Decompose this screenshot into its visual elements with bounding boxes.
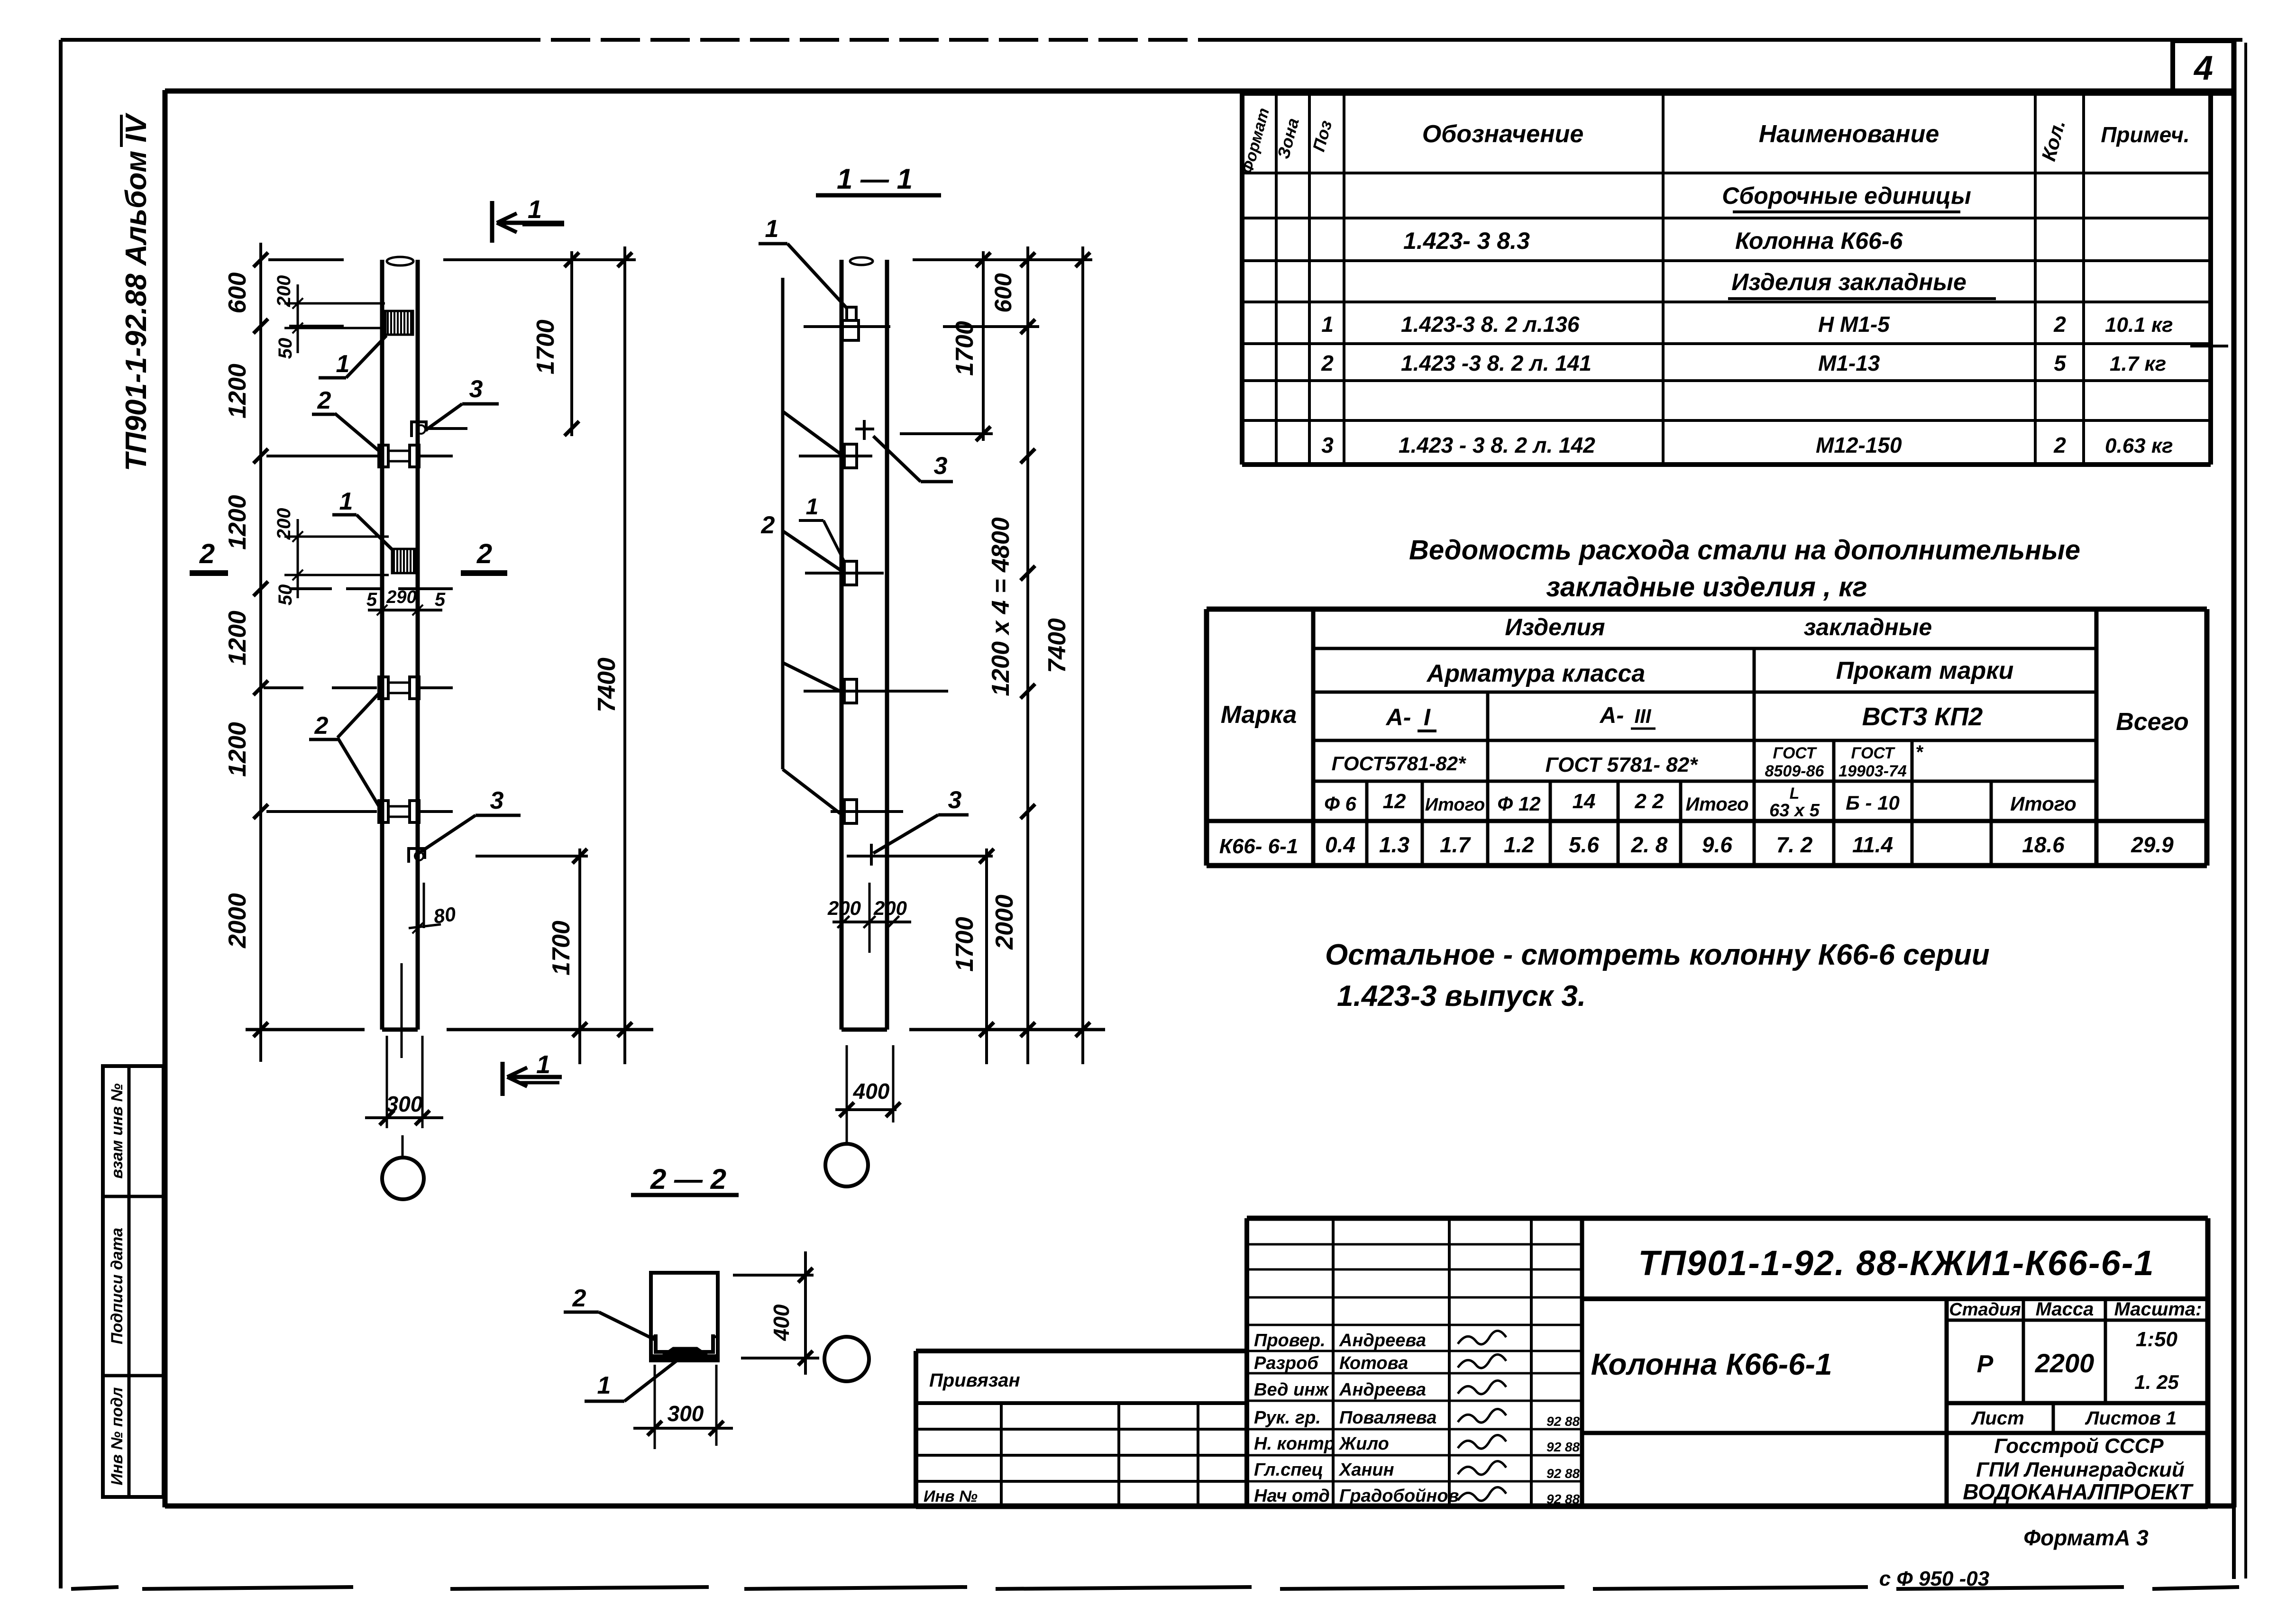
svg-text:Масшта:: Масшта: xyxy=(2114,1299,2202,1320)
svg-text:5: 5 xyxy=(366,589,377,610)
svg-text:Наименование: Наименование xyxy=(1759,120,1939,148)
svg-text:14: 14 xyxy=(1573,790,1596,813)
svg-text:1: 1 xyxy=(339,488,353,515)
svg-text:2: 2 xyxy=(572,1285,586,1312)
svg-text:1: 1 xyxy=(597,1372,611,1399)
svg-text:ГОСТ: ГОСТ xyxy=(1773,744,1818,762)
svg-text:Обозначение: Обозначение xyxy=(1422,120,1584,148)
svg-text:1 — 1: 1 — 1 xyxy=(837,163,913,195)
svg-text:Гл.спец: Гл.спец xyxy=(1254,1460,1323,1480)
svg-text:Подписи дата: Подписи дата xyxy=(108,1228,126,1344)
svg-text:3: 3 xyxy=(469,375,483,403)
svg-text:7400: 7400 xyxy=(593,657,621,712)
svg-text:Лист: Лист xyxy=(1971,1408,2024,1429)
svg-text:3: 3 xyxy=(1321,433,1334,457)
svg-text:92 88: 92 88 xyxy=(1546,1466,1580,1481)
svg-text:2: 2 xyxy=(1321,351,1334,375)
svg-text:ВСТ3 КП2: ВСТ3 КП2 xyxy=(1862,703,1983,731)
svg-text:1700: 1700 xyxy=(951,321,979,376)
svg-text:Масса: Масса xyxy=(2036,1299,2094,1320)
svg-text:закладные изделия , кг: закладные изделия , кг xyxy=(1546,572,1867,602)
svg-text:1.423- 3 8.3: 1.423- 3 8.3 xyxy=(1403,228,1530,254)
svg-text:Рук. гр.: Рук. гр. xyxy=(1254,1408,1321,1428)
svg-text:I: I xyxy=(1424,704,1431,730)
svg-text:12: 12 xyxy=(1383,790,1406,813)
svg-text:Колонна К66-6: Колонна К66-6 xyxy=(1735,228,1903,254)
svg-text:Н. контр: Н. контр xyxy=(1254,1434,1335,1454)
svg-text:ВОДОКАНАЛПРОЕКТ: ВОДОКАНАЛПРОЕКТ xyxy=(1963,1479,2194,1504)
svg-text:1. 25: 1. 25 xyxy=(2134,1371,2179,1393)
svg-text:300: 300 xyxy=(386,1092,423,1116)
svg-text:50: 50 xyxy=(275,584,296,606)
svg-text:ТП901-1-92.88 Альбом IV: ТП901-1-92.88 Альбом IV xyxy=(120,112,153,471)
svg-text:А-: А- xyxy=(1600,703,1624,728)
svg-text:Итого: Итого xyxy=(1685,794,1748,815)
svg-text:Изделия закладные: Изделия закладные xyxy=(1731,269,1967,295)
svg-text:92 88: 92 88 xyxy=(1546,1440,1580,1454)
svg-text:2: 2 xyxy=(199,538,215,569)
svg-text:2: 2 xyxy=(476,538,492,569)
svg-text:3: 3 xyxy=(490,787,504,814)
svg-text:Листов 1: Листов 1 xyxy=(2085,1408,2177,1429)
svg-text:III: III xyxy=(1634,705,1651,727)
svg-text:10.1 кг: 10.1 кг xyxy=(2105,313,2173,337)
svg-text:взам инв №: взам инв № xyxy=(108,1083,126,1178)
svg-text:Всего: Всего xyxy=(2116,708,2189,736)
svg-text:закладные: закладные xyxy=(1804,614,1932,640)
svg-text:92 88: 92 88 xyxy=(1546,1414,1580,1429)
svg-text:Примеч.: Примеч. xyxy=(2101,122,2189,147)
svg-text:19903-74: 19903-74 xyxy=(1839,762,1907,780)
svg-text:50: 50 xyxy=(275,338,296,359)
svg-text:Инв №: Инв № xyxy=(924,1487,978,1505)
svg-text:ФорматА 3: ФорматА 3 xyxy=(2023,1525,2149,1550)
svg-text:Стадия: Стадия xyxy=(1949,1300,2021,1320)
svg-text:11.4: 11.4 xyxy=(1852,832,1893,857)
svg-text:М12-150: М12-150 xyxy=(1816,433,1902,457)
svg-text:2. 8: 2. 8 xyxy=(1631,832,1668,857)
svg-text:1200: 1200 xyxy=(224,495,251,550)
svg-text:1.423 -3 8. 2 л. 141: 1.423 -3 8. 2 л. 141 xyxy=(1401,351,1592,375)
svg-text:ГОСТ: ГОСТ xyxy=(1851,744,1896,762)
svg-text:0.63 кг: 0.63 кг xyxy=(2105,434,2173,457)
svg-text:200: 200 xyxy=(827,897,861,919)
svg-text:2: 2 xyxy=(2053,433,2066,457)
svg-text:1700: 1700 xyxy=(532,319,559,374)
svg-text:1: 1 xyxy=(765,215,779,243)
svg-text:600: 600 xyxy=(224,273,251,314)
svg-text:Жило: Жило xyxy=(1338,1434,1389,1454)
svg-text:Остальное - смотреть колонну: Остальное - смотреть колонну К66-6 серии xyxy=(1325,939,1990,971)
svg-text:1700: 1700 xyxy=(951,917,979,972)
svg-text:ТП901-1-92. 88-КЖИ1-К66-6-1: ТП901-1-92. 88-КЖИ1-К66-6-1 xyxy=(1638,1243,2154,1283)
svg-text:2: 2 xyxy=(317,387,331,414)
svg-text:с Ф 950 -03: с Ф 950 -03 xyxy=(1879,1567,1990,1590)
svg-text:Ханин: Ханин xyxy=(1338,1460,1394,1480)
svg-text:1.423-3 выпуск 3.: 1.423-3 выпуск 3. xyxy=(1337,980,1586,1013)
svg-text:1: 1 xyxy=(336,350,350,378)
svg-text:1.3: 1.3 xyxy=(1379,832,1409,857)
svg-text:К66- 6-1: К66- 6-1 xyxy=(1219,835,1298,858)
svg-text:5: 5 xyxy=(2054,351,2067,375)
svg-text:Котова: Котова xyxy=(1339,1353,1408,1373)
svg-text:1200: 1200 xyxy=(224,722,251,777)
svg-text:Разроб: Разроб xyxy=(1254,1353,1319,1373)
svg-text:18.6: 18.6 xyxy=(2022,832,2065,857)
svg-text:1.7: 1.7 xyxy=(1440,832,1471,857)
svg-text:ГОСТ5781-82*: ГОСТ5781-82* xyxy=(1332,752,1466,775)
svg-text:63 х 5: 63 х 5 xyxy=(1769,801,1820,821)
svg-text:ГОСТ 5781- 82*: ГОСТ 5781- 82* xyxy=(1546,753,1699,776)
svg-text:0.4: 0.4 xyxy=(1325,832,1355,857)
svg-text:80: 80 xyxy=(432,903,457,928)
svg-text:290: 290 xyxy=(386,587,416,607)
svg-text:1700: 1700 xyxy=(548,921,575,976)
svg-text:Андреева: Андреева xyxy=(1339,1331,1426,1350)
svg-text:5: 5 xyxy=(435,589,446,610)
svg-text:Нач отд: Нач отд xyxy=(1254,1486,1330,1506)
svg-text:1200 х 4 = 4800: 1200 х 4 = 4800 xyxy=(987,517,1015,696)
svg-text:2: 2 xyxy=(314,712,329,739)
svg-text:Сборочные единицы: Сборочные единицы xyxy=(1722,182,1971,209)
svg-text:Поваляева: Поваляева xyxy=(1339,1408,1436,1428)
svg-text:1.423 - 3 8. 2 л. 142: 1.423 - 3 8. 2 л. 142 xyxy=(1399,433,1595,457)
svg-text:1.423-3 8. 2 л.136: 1.423-3 8. 2 л.136 xyxy=(1401,312,1580,337)
svg-text:Колонна К66-6-1: Колонна К66-6-1 xyxy=(1591,1347,1832,1381)
svg-text:29.9: 29.9 xyxy=(2131,832,2174,857)
svg-text:2200: 2200 xyxy=(2035,1348,2095,1378)
svg-text:1.7 кг: 1.7 кг xyxy=(2110,352,2166,375)
svg-text:400: 400 xyxy=(853,1079,890,1104)
svg-text:Итого: Итого xyxy=(1425,795,1485,815)
svg-text:Привязан: Привязан xyxy=(929,1370,1020,1391)
svg-text:600: 600 xyxy=(990,273,1016,313)
svg-text:Б - 10: Б - 10 xyxy=(1846,792,1900,814)
svg-text:Вед инж: Вед инж xyxy=(1254,1380,1329,1400)
svg-text:Арматура класса: Арматура класса xyxy=(1426,660,1646,687)
svg-text:2000: 2000 xyxy=(991,894,1018,950)
svg-text:1.2: 1.2 xyxy=(1504,832,1534,857)
svg-text:1200: 1200 xyxy=(224,364,251,419)
svg-text:1: 1 xyxy=(806,494,819,520)
svg-text:2: 2 xyxy=(2053,312,2066,337)
svg-text:92 88: 92 88 xyxy=(1546,1492,1580,1506)
svg-text:Ф 12: Ф 12 xyxy=(1497,793,1540,815)
svg-text:2 2: 2 2 xyxy=(1634,790,1664,813)
svg-text:Итого: Итого xyxy=(2010,793,2076,815)
svg-text:Госстрой СССР: Госстрой СССР xyxy=(1994,1434,2164,1458)
svg-text:ГПИ Ленинградский: ГПИ Ленинградский xyxy=(1976,1458,2185,1481)
svg-text:5.6: 5.6 xyxy=(1569,832,1599,857)
svg-text:200: 200 xyxy=(274,508,294,540)
svg-text:А-: А- xyxy=(1385,704,1411,730)
svg-text:2000: 2000 xyxy=(224,893,251,949)
svg-text:Марка: Марка xyxy=(1221,701,1297,729)
svg-text:Инв № подл: Инв № подл xyxy=(108,1387,126,1485)
svg-text:9.6: 9.6 xyxy=(1702,832,1732,857)
svg-text:1200: 1200 xyxy=(224,611,251,666)
svg-text:400: 400 xyxy=(769,1304,794,1341)
svg-text:3: 3 xyxy=(934,452,948,480)
svg-text:7. 2: 7. 2 xyxy=(1776,832,1813,857)
svg-text:Ф 6: Ф 6 xyxy=(1324,793,1356,815)
svg-text:Прокат марки: Прокат марки xyxy=(1836,657,2014,684)
svg-text:7400: 7400 xyxy=(1043,618,1071,673)
svg-text:М1-13: М1-13 xyxy=(1818,351,1880,375)
svg-text:Р: Р xyxy=(1977,1350,1994,1378)
svg-text:300: 300 xyxy=(668,1401,704,1426)
svg-text:1:50: 1:50 xyxy=(2136,1328,2178,1351)
svg-text:Провер.: Провер. xyxy=(1254,1331,1326,1350)
svg-text:Градобойнов: Градобойнов xyxy=(1339,1486,1459,1506)
svg-text:Изделия: Изделия xyxy=(1505,614,1605,640)
svg-text:2 — 2: 2 — 2 xyxy=(650,1163,726,1195)
svg-text:3: 3 xyxy=(948,786,962,814)
svg-text:Н М1-5: Н М1-5 xyxy=(1818,312,1890,337)
svg-text:200: 200 xyxy=(873,897,907,919)
svg-text:1: 1 xyxy=(1321,312,1334,337)
svg-text:1: 1 xyxy=(528,195,542,224)
svg-text:Андреева: Андреева xyxy=(1339,1380,1426,1400)
svg-text:8509-86: 8509-86 xyxy=(1765,762,1825,780)
svg-text:1: 1 xyxy=(536,1050,550,1079)
svg-text:Ведомость расхода стали: Ведомость расхода стали на дополнительны… xyxy=(1409,535,2080,566)
svg-text:200: 200 xyxy=(274,275,294,308)
svg-text:4: 4 xyxy=(2193,49,2213,87)
svg-text:L: L xyxy=(1790,785,1800,803)
svg-text:2: 2 xyxy=(761,511,775,539)
svg-text:*: * xyxy=(1915,742,1924,763)
